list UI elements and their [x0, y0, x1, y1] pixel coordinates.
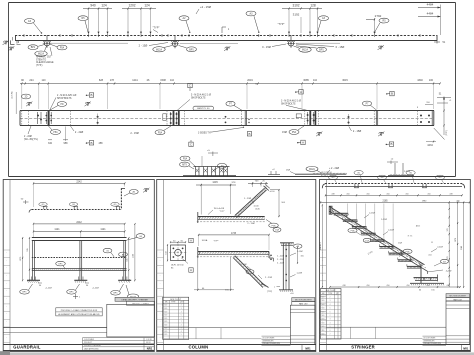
stringer plan bar dashed [325, 183, 462, 185]
balloon M12A D2 [306, 166, 321, 172]
svg-text:2-15Ø: 2-15Ø [369, 213, 375, 215]
svg-text:M20: M20 [322, 304, 325, 306]
guardrail rail plan centerline [15, 35, 437, 37]
svg-text:M20: M20 [164, 311, 167, 313]
svg-text:450: 450 [426, 285, 429, 287]
svg-text:2 - 15Ø: 2 - 15Ø [130, 132, 138, 135]
svg-text:110: 110 [313, 79, 318, 82]
note 2-22 D2 [327, 167, 339, 173]
column base member web line [198, 252, 269, 254]
member left end [20, 111, 22, 126]
bolt pair a [97, 114, 99, 125]
svg-text:4434: 4434 [427, 144, 433, 147]
d1 dim 743 [248, 181, 268, 188]
svg-text:(TYP.): (TYP.) [36, 65, 43, 67]
base plate labels [171, 258, 188, 270]
GUARDRAIL sheet border [3, 180, 154, 352]
tread 9 [407, 262, 422, 268]
svg-text:M12A: M12A [38, 53, 44, 56]
svg-text:ALIGNMENT AND FUTURE ACTION AB: ALIGNMENT AND FUTURE ACTION ABOVE [58, 313, 100, 316]
svg-text:55: 55 [431, 242, 433, 244]
top sheet border [9, 3, 456, 177]
svg-text:450: 450 [366, 285, 369, 287]
sheet3 mid rules [327, 327, 447, 338]
svg-text:1A PL 10×150: 1A PL 10×150 [171, 264, 184, 267]
svg-text:1070: 1070 [455, 238, 457, 242]
svg-text:R 1%: R 1% [408, 236, 413, 238]
sheet1 header bar [115, 297, 155, 305]
balloon A3 D1 [214, 163, 227, 170]
ext line arrowheads [88, 32, 376, 35]
svg-text:ASSEMBLER: ASSEMBLER [263, 340, 275, 343]
note shop bolts 1 [50, 94, 77, 110]
svg-text:1121: 1121 [100, 228, 106, 231]
d2 right bracket [269, 251, 284, 264]
stiffener dashed line 4 [373, 111, 375, 126]
right end dim group [426, 94, 452, 148]
detail D4 small [268, 169, 280, 175]
detail D1 dim [202, 150, 218, 167]
TYP leader note [153, 25, 160, 32]
svg-text:P5A: P5A [271, 224, 276, 227]
svg-text:10 EA: 10 EA [202, 239, 208, 242]
band1 dim 4484 upper [418, 3, 441, 9]
svg-text:178: 178 [110, 79, 115, 82]
sheet2 title block [290, 305, 314, 344]
balloon M12A post2 [153, 46, 172, 52]
stringer foot plate [414, 275, 438, 282]
sheet2 header table [292, 298, 315, 306]
svg-text:3 SIDES TYP: 3 SIDES TYP [198, 132, 212, 134]
svg-text:BENT PL 50: BENT PL 50 [197, 108, 210, 110]
left rotated dim [12, 91, 17, 114]
svg-text:"TYP": "TYP" [278, 22, 285, 26]
svg-text:178: 178 [447, 229, 449, 232]
svg-text:438: 438 [331, 193, 334, 195]
brace down edge b [233, 256, 266, 287]
note 15 D2 [286, 170, 295, 174]
svg-text:1121: 1121 [54, 228, 60, 231]
svg-text:M20: M20 [164, 321, 167, 323]
svg-text:PROJECT DELIVERY: PROJECT DELIVERY [84, 345, 102, 347]
section mark mid [224, 46, 230, 51]
svg-text:P5A: P5A [158, 131, 163, 134]
flag A upper [295, 90, 303, 94]
stiffener dashed line 2 [69, 111, 71, 126]
svg-text:M20: M20 [322, 311, 325, 313]
svg-text:P5A: P5A [60, 47, 65, 50]
brace top cut [264, 185, 270, 190]
svg-text:PROJECT: PROJECT [84, 342, 93, 344]
svg-text:+1-22Ø: +1-22Ø [45, 288, 52, 290]
svg-text:458: 458 [99, 142, 104, 145]
svg-text:450: 450 [427, 193, 430, 195]
sheet2 sheet no box [302, 345, 311, 351]
right vertical dim b [455, 201, 458, 288]
plan bar clip 1 [354, 184, 359, 188]
svg-text:2019: 2019 [247, 79, 253, 82]
svg-text:2-22Ø: 2-22Ø [437, 247, 443, 249]
svg-text:A: A [190, 268, 192, 272]
elev left dims [20, 237, 30, 281]
sheet1 title block [107, 304, 155, 337]
rail lower reference line [50, 42, 340, 44]
right vertical dim a [447, 202, 450, 287]
svg-text:B: B [390, 142, 392, 146]
stringer bottom dim [329, 285, 460, 288]
band1 dim 2792 [366, 14, 382, 33]
tread 7 [389, 251, 404, 255]
tread 1 [334, 211, 349, 217]
svg-text:128: 128 [310, 3, 316, 7]
svg-text:P5A: P5A [351, 229, 356, 232]
svg-text:STRINGER: STRINGER [351, 345, 375, 350]
svg-text:178: 178 [447, 257, 449, 260]
balloon PD [50, 102, 67, 110]
balloon BP1 post3 [296, 46, 327, 52]
svg-text:15-RB: 15-RB [374, 241, 380, 243]
plan balloon 3 [378, 175, 387, 183]
svg-text:DETAIL DELIVERY - STRINGER: DETAIL DELIVERY - STRINGER [122, 298, 149, 301]
sheet3 bolt list table [321, 289, 342, 339]
bracket ticks mid [222, 27, 230, 33]
midrail balloon [103, 248, 114, 256]
plan balloon 5 [435, 175, 444, 183]
note approx cut stem [36, 47, 54, 67]
column base member top flange [198, 251, 269, 253]
d2 flags A [189, 238, 193, 272]
svg-text:A CUSTOMER: A CUSTOMER [263, 336, 276, 339]
balloon BP1 post2 [179, 46, 197, 52]
svg-text:2 - 22Ø: 2 - 22Ø [24, 136, 32, 138]
sheet2 bolt list table [163, 297, 189, 339]
balloon A3 right [318, 16, 329, 32]
svg-text:DEVELOPMENT: DEVELOPMENT [424, 344, 438, 346]
d2 vert dims [194, 257, 234, 292]
svg-text:2D: 2D [25, 97, 28, 99]
svg-text:M20: M20 [322, 334, 325, 336]
plan dim 50 [21, 199, 29, 205]
balloon A2 [179, 16, 191, 33]
detail D2 baseline [295, 173, 347, 175]
svg-text:3 - M 20 A 48.2 1-Ø: 3 - M 20 A 48.2 1-Ø [281, 99, 301, 102]
left end tick detail [13, 37, 21, 45]
bottom paper edge band [0, 351, 474, 355]
svg-text:1-22Ø: 1-22Ø [381, 219, 387, 221]
svg-text:450: 450 [366, 193, 369, 195]
column base member left end [198, 247, 200, 258]
svg-text:BP1: BP1 [319, 49, 324, 52]
svg-text:5 - M 20 A 48.2 1-Ø: 5 - M 20 A 48.2 1-Ø [191, 93, 211, 96]
elev midrail [32, 257, 127, 259]
svg-text:M20: M20 [322, 315, 325, 317]
GUARDRAIL revision strip [3, 180, 10, 353]
plan balloon 4 [406, 171, 415, 183]
svg-text:B: B [391, 92, 393, 96]
plan rail clip 2 [69, 202, 78, 209]
d1 below balloons [247, 220, 281, 233]
svg-text:B: B [248, 132, 250, 136]
guardrail plan rail [29, 188, 125, 212]
svg-text:100: 100 [429, 79, 434, 82]
svg-text:M20: M20 [164, 318, 167, 320]
band1 dim 4484 lower [418, 5, 441, 36]
svg-text:2242: 2242 [76, 221, 82, 224]
plan rail clip 3 [111, 202, 121, 209]
stringer top end plate [329, 206, 332, 214]
balloon P7 [226, 101, 242, 110]
sheet2 mid rules [164, 328, 291, 339]
svg-text:STEM TO: STEM TO [36, 59, 46, 61]
stiffener dashed line 1 [28, 111, 30, 126]
field splice joint 1 [245, 111, 250, 126]
stringer main dim [320, 200, 470, 203]
svg-text:M20: M20 [164, 324, 167, 326]
d1 right dim [269, 189, 285, 217]
svg-text:15Ø: 15Ø [365, 240, 369, 242]
svg-text:438: 438 [446, 285, 449, 287]
balloon A3 left [246, 11, 259, 33]
svg-text:B: B [90, 93, 92, 97]
balloon R5 right [374, 18, 389, 33]
note 0-15 post3 right [296, 44, 344, 49]
svg-text:SHOP BOLTS: SHOP BOLTS [281, 103, 296, 105]
guardrail post 3 [118, 240, 131, 282]
svg-text:2-15Ø: 2-15Ø [297, 251, 303, 253]
brace down edge a [235, 256, 265, 286]
brace low cut [261, 283, 268, 287]
svg-text:0 - 15Ø: 0 - 15Ø [336, 45, 345, 49]
balloon P5A b2 right [289, 126, 304, 134]
section mark b2 low1 [316, 132, 322, 137]
sheet2 customer rows [262, 336, 291, 346]
guardrail post 2 [74, 240, 87, 282]
flag B lower right [386, 142, 394, 146]
sheet3 title block [446, 301, 470, 345]
rail tick marks [24, 34, 420, 37]
balloon P7 right [362, 101, 376, 110]
svg-text:CUSTOMER: CUSTOMER [84, 339, 95, 341]
post section dims [274, 244, 304, 295]
balloon P5A b2 mid [155, 126, 171, 135]
svg-text:438: 438 [342, 285, 345, 287]
svg-text:M20: M20 [322, 308, 325, 310]
svg-text:3085: 3085 [303, 79, 309, 82]
svg-text:2 - 22Ø: 2 - 22Ø [265, 277, 272, 279]
guardrail post 1 [27, 240, 40, 282]
member bottom flange [20, 125, 434, 127]
svg-text:958: 958 [64, 142, 69, 145]
GUARDRAIL title strip [3, 345, 155, 351]
sheet3 customer rows [423, 336, 447, 346]
note 2-15 right [349, 127, 361, 134]
svg-text:(TYP): (TYP) [446, 130, 448, 136]
svg-text:NR1: NR1 [463, 347, 469, 351]
note 3 sides typ [198, 127, 244, 135]
note 2-22 left [24, 126, 38, 141]
section mark b2 left [26, 102, 32, 107]
svg-text:(1.5 R): (1.5 R) [12, 91, 14, 98]
svg-text:B: B [90, 141, 92, 145]
plan balloon 2 [354, 171, 363, 183]
note box guardrail [56, 308, 102, 316]
right end small dims [417, 102, 433, 108]
elev post dims [33, 225, 126, 237]
balloon P5A band1 [50, 44, 67, 50]
note shop bolts 2 [177, 93, 211, 110]
note shop bolts 3 [281, 99, 308, 110]
svg-text:BP1: BP1 [31, 46, 36, 49]
right end bolt group [420, 114, 430, 123]
svg-text:M20: M20 [322, 326, 325, 328]
svg-text:A CUSTOMER: A CUSTOMER [424, 336, 437, 339]
svg-text:DEVELOPMENT: DEVELOPMENT [263, 344, 277, 346]
stringer plan dim [325, 193, 463, 196]
column cap member left end [198, 212, 200, 223]
svg-text:2792: 2792 [375, 14, 382, 18]
svg-text:SECTION DELIVERY: SECTION DELIVERY [449, 296, 467, 298]
member centerline [20, 118, 434, 120]
svg-text:BOLT LIST: BOLT LIST [170, 299, 181, 301]
svg-text:332: 332 [48, 142, 53, 145]
d2 dim 1745 [198, 233, 270, 250]
svg-text:15Ø: 15Ø [282, 131, 287, 134]
stiffener dashed line 5 [416, 111, 418, 126]
svg-text:1-22Ø: 1-22Ø [297, 273, 303, 275]
svg-text:P5A: P5A [53, 131, 58, 134]
svg-text:4484: 4484 [427, 12, 434, 16]
tread 4 [361, 231, 376, 235]
svg-text:2242: 2242 [76, 180, 82, 183]
svg-text:15Ø: 15Ø [398, 243, 402, 245]
svg-text:BOLT LIST: BOLT LIST [326, 290, 337, 292]
member top flange [20, 110, 434, 112]
splice plate 2 [163, 111, 185, 126]
base balloon 4 [126, 285, 139, 299]
svg-text:1245: 1245 [212, 181, 218, 184]
right vertical dim c [461, 201, 464, 288]
balloon G3 [25, 19, 43, 34]
svg-text:175: 175 [365, 228, 368, 230]
svg-text:438: 438 [449, 193, 452, 195]
svg-text:MT9: MT9 [182, 165, 187, 167]
TYP note c [278, 22, 285, 26]
svg-text:SHOP BOLTS: SHOP BOLTS [191, 97, 206, 99]
sheet1 mid rules [4, 328, 107, 333]
svg-text:124: 124 [101, 3, 107, 7]
tread 5 [370, 238, 385, 242]
svg-text:"TYP": "TYP" [153, 25, 160, 29]
d1 leader notes [208, 198, 261, 214]
splice plate 1 [45, 111, 52, 125]
svg-text:1 OF R1: 1 OF R1 [146, 339, 152, 341]
svg-text:2 - 15Ø: 2 - 15Ø [247, 223, 255, 225]
svg-text:CLEAR FLANGE: CLEAR FLANGE [36, 61, 54, 64]
svg-text:+2 - 15Ø: +2 - 15Ø [200, 5, 212, 9]
COLUMN title strip [157, 345, 317, 351]
svg-text:(TYP): (TYP) [267, 291, 273, 293]
svg-text:M20: M20 [322, 297, 325, 299]
svg-text:2185: 2185 [382, 200, 388, 202]
splice plate 3 [296, 111, 318, 126]
bolt pair b [225, 116, 227, 123]
svg-text:2 - 15Ø: 2 - 15Ø [240, 264, 247, 266]
stiffener dashed line 3 [240, 111, 242, 126]
svg-text:2 - 15Ø: 2 - 15Ø [139, 44, 148, 48]
band1 dim 1202/124 [122, 3, 156, 33]
d1 dim 1245 [196, 181, 236, 214]
band2 main dim line [20, 79, 441, 109]
sheet3 top-left mini table [320, 172, 336, 177]
balloon R5 top [78, 16, 88, 32]
elev kick plate [32, 269, 127, 271]
plan balloon 1 [328, 175, 337, 183]
plan bar left hook [322, 184, 325, 189]
d2 notes [202, 239, 273, 293]
elev right dims [126, 223, 135, 281]
svg-text:4340: 4340 [417, 79, 423, 82]
svg-text:P5A: P5A [292, 131, 297, 134]
svg-text:450: 450 [405, 193, 408, 195]
stringer band centerline [329, 209, 426, 268]
elev under post texts [38, 283, 99, 290]
svg-text:M20: M20 [322, 300, 325, 302]
svg-text:M20: M20 [164, 305, 167, 307]
svg-text:(W.L.45)(T.S.): (W.L.45)(T.S.) [24, 139, 38, 141]
COLUMN sheet border [157, 180, 316, 352]
svg-text:SHOP BOLTS: SHOP BOLTS [57, 98, 72, 100]
flag B lower left [86, 141, 94, 145]
STRINGER sheet border [320, 180, 471, 352]
svg-text:APPROX. CUT: APPROX. CUT [36, 56, 52, 59]
balloon MT9 D1 [180, 162, 195, 169]
svg-text:1 - 22Ø: 1 - 22Ø [244, 198, 252, 200]
stair notes [348, 213, 452, 292]
svg-text:A: A [302, 141, 304, 145]
post anchor circle P3 [287, 35, 295, 48]
svg-text:0 - 15Ø: 0 - 15Ø [262, 45, 271, 49]
svg-text:ASSEMBLER: ASSEMBLER [424, 340, 436, 343]
note 2-15a top [196, 5, 212, 14]
detail D1 posts [190, 167, 236, 176]
svg-text:175: 175 [355, 222, 358, 224]
svg-text:A: A [190, 239, 192, 243]
svg-text:3015: 3015 [342, 79, 348, 82]
svg-text:2-22Ø: 2-22Ø [388, 230, 394, 232]
field splice joint 2 [376, 111, 377, 126]
plan bar clip 2 [388, 184, 393, 188]
sheet3 sheet no box [462, 345, 469, 351]
note 0-15 post3 left [262, 44, 286, 49]
tread 3 [352, 224, 367, 228]
svg-text:224: 224 [29, 79, 34, 82]
tread riser verticals [347, 204, 393, 254]
svg-text:NR1: NR1 [147, 347, 153, 351]
svg-text:M20: M20 [164, 308, 167, 310]
svg-text:3192: 3192 [293, 13, 300, 17]
svg-text:±2-10: ±2-10 [269, 191, 275, 193]
svg-text:940: 940 [90, 3, 96, 7]
svg-text:TYPE: TYPE [328, 293, 332, 295]
svg-text:3102: 3102 [292, 3, 299, 7]
elev top rail [32, 238, 127, 241]
stringer band bottom edge [329, 211, 427, 271]
tread 8 [398, 256, 413, 261]
svg-text:4484: 4484 [427, 3, 434, 7]
flag B upper left [86, 93, 94, 97]
svg-text:P5A: P5A [406, 250, 411, 253]
svg-text:60: 60 [419, 290, 421, 292]
